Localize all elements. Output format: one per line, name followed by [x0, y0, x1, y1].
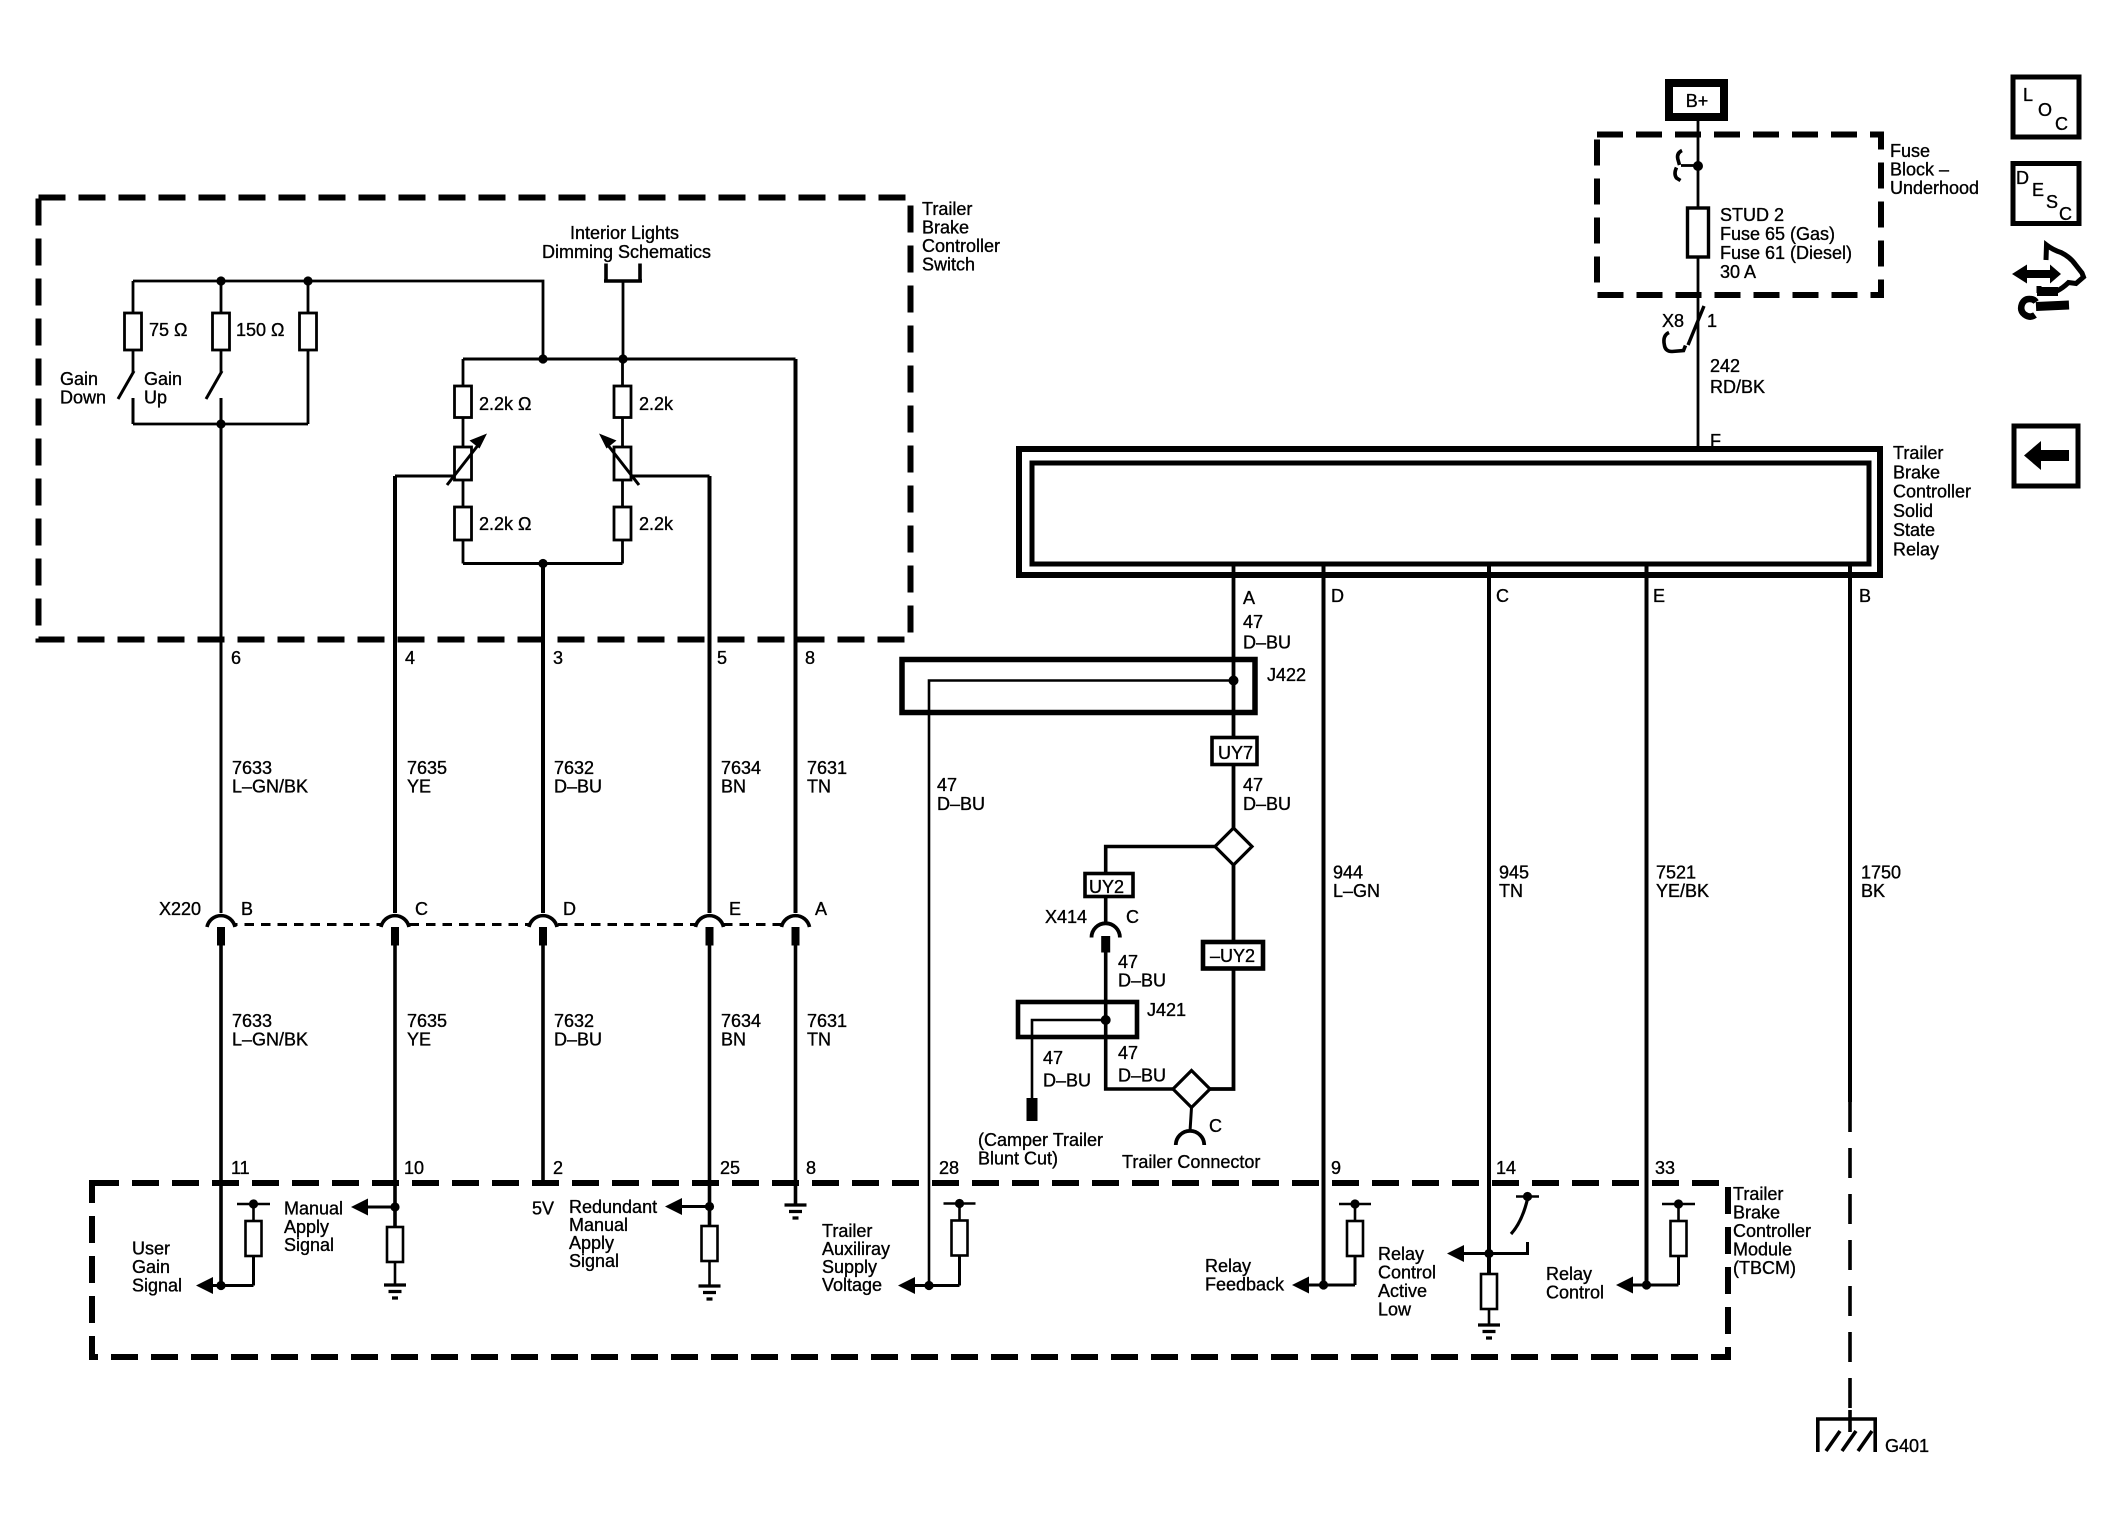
svg-text:Redundant: Redundant — [569, 1197, 657, 1217]
svg-text:Brake: Brake — [1893, 462, 1940, 482]
svg-text:Relay: Relay — [1205, 1256, 1251, 1276]
splice pack J422 box — [902, 660, 1306, 713]
inline connector UY2 — [1085, 874, 1133, 898]
svg-text:33: 33 — [1655, 1158, 1675, 1178]
svg-text:5V: 5V — [532, 1199, 554, 1219]
svg-text:UY7: UY7 — [1218, 743, 1253, 763]
resistor 2.2k upper right — [614, 359, 674, 447]
wire 7632 D-BU X220 D to TBCM pin2 — [541, 946, 545, 1184]
svg-text:Up: Up — [144, 388, 167, 408]
svg-text:B+: B+ — [1686, 91, 1709, 111]
svg-text:TN: TN — [807, 777, 831, 797]
svg-text:F: F — [1710, 431, 1721, 451]
svg-text:Voltage: Voltage — [822, 1275, 882, 1295]
svg-text:Signal: Signal — [132, 1276, 182, 1296]
node: junction dot top rail at 150ohm — [216, 276, 225, 285]
svg-text:YE/BK: YE/BK — [1656, 881, 1709, 901]
svg-text:7632: 7632 — [554, 1011, 594, 1031]
svg-text:6: 6 — [231, 648, 241, 668]
connector X414 terminal C — [1045, 897, 1139, 953]
TBCM ground (pin 8) — [785, 1205, 807, 1218]
svg-text:D: D — [563, 899, 576, 919]
svg-text:Dimming Schematics: Dimming Schematics — [542, 242, 711, 262]
trailer brake controller solid state relay box — [1019, 431, 1971, 575]
wire: left pot wiper to pin 4 — [395, 475, 455, 478]
svg-text:Trailer: Trailer — [822, 1221, 872, 1241]
svg-text:7634: 7634 — [721, 1011, 761, 1031]
svg-text:STUD 2: STUD 2 — [1720, 205, 1784, 225]
node: junction dot bridge top at gain feed — [538, 354, 547, 363]
svg-text:D–BU: D–BU — [554, 777, 602, 797]
svg-text:YE: YE — [407, 1030, 431, 1050]
svg-text:47: 47 — [937, 775, 957, 795]
svg-text:D–BU: D–BU — [1118, 971, 1166, 991]
svg-text:47: 47 — [1118, 1043, 1138, 1063]
TBCM relay control output (pin 33) — [1546, 1199, 1695, 1302]
svg-text:Control: Control — [1378, 1263, 1436, 1283]
ground G401 — [1816, 1410, 1929, 1456]
TBCM trailer auxiliary supply voltage (pin 28) — [822, 1199, 976, 1295]
svg-text:Fuse 61 (Diesel): Fuse 61 (Diesel) — [1720, 243, 1852, 263]
svg-text:1: 1 — [1707, 311, 1717, 331]
svg-text:2.2k Ω: 2.2k Ω — [479, 514, 531, 534]
resistor 2.2k upper left — [455, 359, 532, 447]
svg-text:X220: X220 — [159, 899, 201, 919]
wire 944 L-GN relay D to TBCM pin9 — [1322, 566, 1326, 1285]
svg-text:(Camper Trailer: (Camper Trailer — [978, 1130, 1103, 1150]
svg-text:Fuse: Fuse — [1890, 141, 1930, 161]
svg-text:Signal: Signal — [569, 1251, 619, 1271]
svg-text:Apply: Apply — [569, 1233, 614, 1253]
svg-text:YE: YE — [407, 777, 431, 797]
node: junction dot bridge top at interior lights feed — [618, 354, 627, 363]
svg-text:Active: Active — [1378, 1281, 1427, 1301]
svg-text:Block –: Block – — [1890, 160, 1949, 180]
svg-text:State: State — [1893, 520, 1935, 540]
svg-text:D–BU: D–BU — [1043, 1071, 1091, 1091]
svg-text:TN: TN — [1499, 881, 1523, 901]
wire 7521 YE/BK relay E to TBCM pin33 — [1645, 566, 1649, 1285]
svg-text:Trailer: Trailer — [1893, 443, 1943, 463]
svg-text:D: D — [2016, 168, 2029, 188]
svg-text:8: 8 — [806, 1158, 816, 1178]
svg-text:47: 47 — [1243, 612, 1263, 632]
connector X220 terminal C — [381, 899, 428, 946]
wire 7631 TN X220 A to TBCM pin8 — [794, 946, 798, 1206]
svg-text:Trailer Connector: Trailer Connector — [1122, 1152, 1260, 1172]
node: J422 splice dot — [1229, 676, 1239, 686]
svg-text:J422: J422 — [1267, 665, 1306, 685]
node: junction dot top rail at third resistor — [303, 276, 312, 285]
svg-text:2.2k Ω: 2.2k Ω — [479, 394, 531, 414]
svg-text:150 Ω: 150 Ω — [236, 320, 285, 340]
svg-text:BN: BN — [721, 1030, 746, 1050]
svg-text:E: E — [2032, 180, 2044, 200]
icon back arrow box — [2014, 426, 2078, 486]
wire 7633 L-GN/BK X220 B to TBCM pin11 — [219, 946, 223, 1286]
resistor 2.2k lower left — [455, 480, 532, 564]
svg-text:L–GN/BK: L–GN/BK — [232, 1030, 308, 1050]
svg-text:242: 242 — [1710, 356, 1740, 376]
svg-text:Gain: Gain — [132, 1257, 170, 1277]
wire: dimmer bridge bottom rail — [463, 562, 623, 565]
switch Gain Up — [144, 369, 222, 424]
trailer connector terminal C — [1122, 1108, 1260, 1173]
svg-text:2.2k: 2.2k — [639, 514, 674, 534]
svg-text:C: C — [2059, 204, 2072, 224]
svg-text:Trailer: Trailer — [1733, 1184, 1783, 1204]
svg-text:X8: X8 — [1662, 311, 1684, 331]
svg-text:Low: Low — [1378, 1300, 1412, 1320]
resistor 2.2k lower right — [614, 480, 674, 564]
icon DESC box — [2013, 164, 2079, 225]
fuse STUD 2 Fuse 65/61 30 A — [1688, 205, 1853, 282]
svg-text:A: A — [815, 899, 827, 919]
camper trailer blunt cut terminal — [978, 1098, 1103, 1169]
wire: J422 internal bus to pin 28 leg — [929, 681, 1232, 1286]
wire 7633 L-GN/BK pin6 to X220 B — [220, 424, 223, 913]
resistor 150 ohm — [213, 281, 285, 372]
svg-text:C: C — [1209, 1116, 1222, 1136]
interior lights dimming schematics bracket — [542, 223, 711, 359]
wire 1750 BK relay B solid section — [1848, 566, 1852, 1102]
wire: branch from diamond 1 to UY2 — [1106, 847, 1216, 874]
wire 7632 D-BU pin3 to X220 D — [541, 564, 545, 914]
wire 7634 BN X220 E to TBCM pin25 — [708, 946, 712, 1227]
connector X220 terminal E — [696, 899, 742, 946]
svg-text:30 A: 30 A — [1720, 262, 1756, 282]
svg-text:Supply: Supply — [822, 1257, 877, 1277]
svg-text:Control: Control — [1546, 1283, 1604, 1303]
svg-text:1750: 1750 — [1861, 863, 1901, 883]
svg-text:47: 47 — [1118, 952, 1138, 972]
TBCM relay control active low switch (pin 14) — [1378, 1192, 1539, 1338]
TBCM relay feedback input (pin 9) — [1205, 1199, 1371, 1294]
svg-text:UY2: UY2 — [1089, 877, 1124, 897]
svg-text:Relay: Relay — [1378, 1244, 1424, 1264]
battery feed B+ symbol — [1669, 83, 1724, 117]
svg-text:Manual: Manual — [569, 1215, 628, 1235]
svg-text:–UY2: –UY2 — [1210, 946, 1255, 966]
svg-text:944: 944 — [1333, 863, 1363, 883]
connector X220 dashed tie line — [228, 923, 790, 926]
svg-text:7635: 7635 — [407, 1011, 447, 1031]
svg-text:Controller: Controller — [922, 236, 1000, 256]
svg-text:3: 3 — [553, 648, 563, 668]
svg-text:Interior Lights: Interior Lights — [570, 223, 679, 243]
svg-text:Relay: Relay — [1546, 1264, 1592, 1284]
svg-text:75 Ω: 75 Ω — [149, 320, 187, 340]
svg-text:Signal: Signal — [284, 1235, 334, 1255]
svg-text:A: A — [1243, 588, 1255, 608]
wire: right pot wiper to pin 5 — [631, 475, 710, 478]
svg-text:E: E — [1653, 586, 1665, 606]
svg-text:C: C — [415, 899, 428, 919]
TBCM redundant manual apply signal (pin 25) — [569, 1197, 721, 1299]
svg-text:S: S — [2046, 192, 2058, 212]
svg-text:Gain: Gain — [144, 369, 182, 389]
icon schematic navigation arrows and wrench — [2012, 245, 2084, 317]
node: J421 splice dot — [1101, 1015, 1111, 1025]
connector X220 terminal A — [782, 899, 828, 946]
wire 7634 BN pin5 to X220 E — [708, 476, 712, 913]
svg-text:BK: BK — [1861, 881, 1885, 901]
svg-text:(TBCM): (TBCM) — [1733, 1258, 1796, 1278]
wire 945 TN relay C to TBCM pin14 — [1487, 566, 1491, 1274]
svg-text:B: B — [1859, 586, 1871, 606]
node: junction dot bridge bottom — [538, 559, 547, 568]
wire: gain circuit bottom rail — [133, 423, 308, 426]
switch Gain Down — [60, 369, 134, 424]
wire: J421 internal line to camper trailer blunt cut — [1032, 1020, 1104, 1098]
svg-text:2.2k: 2.2k — [639, 394, 674, 414]
wire 7635 YE X220 C to TBCM pin10 — [393, 946, 397, 1228]
svg-text:5: 5 — [717, 648, 727, 668]
svg-text:7521: 7521 — [1656, 863, 1696, 883]
svg-text:L–GN: L–GN — [1333, 881, 1380, 901]
svg-text:D–BU: D–BU — [1243, 794, 1291, 814]
svg-text:Relay: Relay — [1893, 540, 1939, 560]
wire 242 RD/BK from B+ through fuse to relay pin F — [1697, 121, 1700, 462]
svg-text:G401: G401 — [1885, 1436, 1929, 1456]
svg-text:Gain: Gain — [60, 369, 98, 389]
svg-text:User: User — [132, 1239, 170, 1259]
svg-text:Feedback: Feedback — [1205, 1275, 1285, 1295]
svg-text:7635: 7635 — [407, 758, 447, 778]
svg-text:7631: 7631 — [807, 758, 847, 778]
svg-text:Down: Down — [60, 388, 106, 408]
inline connector -UY2 — [1203, 942, 1263, 969]
connector X220 terminal D — [529, 899, 576, 946]
svg-text:9: 9 — [1331, 1158, 1341, 1178]
splice pack J421 box — [1018, 1000, 1186, 1037]
svg-text:D–BU: D–BU — [554, 1030, 602, 1050]
wire 7631 TN pin8 to X220 A — [794, 359, 798, 913]
svg-text:L–GN/BK: L–GN/BK — [232, 777, 308, 797]
splice diamond 2 — [1173, 1071, 1210, 1108]
svg-text:47: 47 — [1043, 1048, 1063, 1068]
connector X220 terminal B — [207, 899, 253, 946]
svg-text:Controller: Controller — [1893, 482, 1971, 502]
svg-text:47: 47 — [1243, 775, 1263, 795]
node: junction dot bottom rail — [216, 419, 225, 428]
potentiometer left (variable resistor with arrow) — [447, 434, 487, 486]
potentiometer right (variable resistor with arrow) — [599, 434, 639, 486]
wire 1750 BK dashed section to ground — [1848, 1102, 1852, 1419]
svg-text:TN: TN — [807, 1030, 831, 1050]
svg-text:RD/BK: RD/BK — [1710, 377, 1765, 397]
svg-text:2: 2 — [553, 1158, 563, 1178]
svg-text:Solid: Solid — [1893, 501, 1933, 521]
svg-text:C: C — [2055, 114, 2068, 134]
svg-text:Auxiliray: Auxiliray — [822, 1239, 890, 1259]
svg-text:7634: 7634 — [721, 758, 761, 778]
trailer brake controller module TBCM dashed box — [92, 1183, 1811, 1357]
svg-text:L: L — [2023, 85, 2033, 105]
svg-text:C: C — [1126, 907, 1139, 927]
connector X8 pin 1 — [1662, 306, 1717, 352]
inline connector UY7 — [1212, 738, 1257, 765]
svg-text:O: O — [2038, 100, 2052, 120]
svg-text:D–BU: D–BU — [1118, 1066, 1166, 1086]
resistor 75 ohm — [125, 281, 188, 372]
splice diamond 1 — [1215, 828, 1252, 865]
svg-text:D–BU: D–BU — [1243, 633, 1291, 653]
svg-text:Brake: Brake — [922, 218, 969, 238]
svg-text:Fuse 65 (Gas): Fuse 65 (Gas) — [1720, 224, 1835, 244]
svg-text:28: 28 — [939, 1158, 959, 1178]
svg-text:Blunt Cut): Blunt Cut) — [978, 1149, 1058, 1169]
svg-text:11: 11 — [231, 1158, 250, 1178]
svg-text:7633: 7633 — [232, 1011, 272, 1031]
wire 47 D-BU relay A trunk down to trailer connector branch — [1208, 566, 1234, 1089]
svg-text:E: E — [729, 899, 741, 919]
svg-text:8: 8 — [805, 648, 815, 668]
fuse block underhood dashed box — [1597, 135, 1979, 296]
svg-text:945: 945 — [1499, 863, 1529, 883]
wire: dimmer bridge top rail — [463, 358, 796, 361]
svg-text:7632: 7632 — [554, 758, 594, 778]
wire: X414 leg through J421 to diamond 2 — [1106, 952, 1174, 1089]
svg-text:7633: 7633 — [232, 758, 272, 778]
TBCM user gain signal input (pin 11) — [132, 1199, 270, 1295]
svg-text:X414: X414 — [1045, 907, 1087, 927]
svg-text:Brake: Brake — [1733, 1203, 1780, 1223]
wire: gain circuit top rail — [133, 281, 543, 359]
svg-text:14: 14 — [1496, 1158, 1516, 1178]
svg-text:Switch: Switch — [922, 255, 975, 275]
icon LOC box — [2013, 77, 2079, 137]
svg-text:BN: BN — [721, 777, 746, 797]
svg-text:Controller: Controller — [1733, 1221, 1811, 1241]
svg-text:Manual: Manual — [284, 1199, 343, 1219]
svg-text:Trailer: Trailer — [922, 199, 972, 219]
wire 7635 YE pin4 to X220 C — [393, 476, 397, 913]
svg-text:Underhood: Underhood — [1890, 178, 1979, 198]
svg-text:D: D — [1331, 586, 1344, 606]
svg-text:J421: J421 — [1147, 1000, 1186, 1020]
TBCM manual apply signal output (pin 10) — [284, 1199, 406, 1299]
svg-text:7631: 7631 — [807, 1011, 847, 1031]
svg-text:25: 25 — [720, 1158, 740, 1178]
resistor third (unlabeled) — [300, 281, 317, 424]
svg-text:10: 10 — [404, 1158, 424, 1178]
svg-text:B: B — [241, 899, 253, 919]
svg-text:4: 4 — [405, 648, 415, 668]
fuse block terminal hook — [1675, 151, 1703, 181]
svg-text:Apply: Apply — [284, 1217, 329, 1237]
trailer brake controller switch dashed box — [39, 198, 1001, 640]
svg-text:C: C — [1496, 586, 1509, 606]
svg-text:Module: Module — [1733, 1240, 1792, 1260]
svg-text:D–BU: D–BU — [937, 794, 985, 814]
